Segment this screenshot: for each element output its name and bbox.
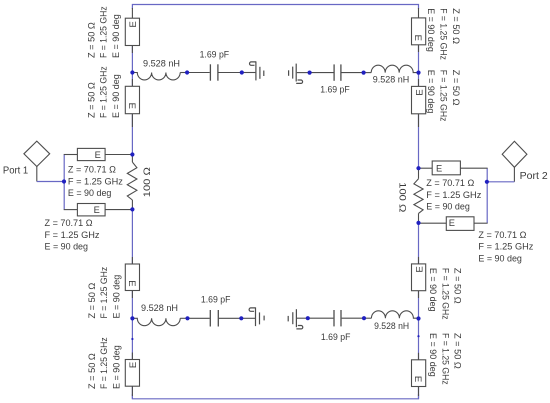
node left rail bottom branch xyxy=(130,316,134,320)
node port1 junction xyxy=(62,179,66,183)
svg-text:E: E xyxy=(126,280,137,286)
svg-text:E: E xyxy=(128,21,139,27)
TLIN U5 label E xyxy=(412,35,423,41)
ground top-right branch xyxy=(289,64,303,84)
TLIN box U4 left rail bottom xyxy=(125,360,139,387)
svg-text:E = 90 deg: E = 90 deg xyxy=(426,8,436,52)
svg-text:Z = 70.71 Ω: Z = 70.71 Ω xyxy=(68,164,116,174)
inductor L4 9.528 nH bottom-right xyxy=(371,311,418,318)
node bottom-left coil-cap xyxy=(185,316,189,320)
node left rail port lower xyxy=(130,207,134,211)
wire TLIN E3 to junction xyxy=(460,167,487,169)
wire TLIN E2 to left rail xyxy=(105,209,132,211)
resistor R1 100 ohm left xyxy=(127,162,137,200)
svg-text:1.69 pF: 1.69 pF xyxy=(200,50,230,60)
TLIN box E4 port2 lower 70.71 ohm xyxy=(446,217,474,231)
svg-text:E: E xyxy=(414,266,425,272)
svg-text:Z = 70.71 Ω: Z = 70.71 Ω xyxy=(426,178,474,188)
capacitor C3 1.69 pF bottom-left xyxy=(210,310,218,327)
svg-text:Port 1: Port 1 xyxy=(3,166,28,177)
svg-text:F = 1.25 GHz: F = 1.25 GHz xyxy=(438,70,448,122)
node left rail top branch xyxy=(130,70,134,74)
resistor R2 value 100 ohm xyxy=(398,182,408,212)
node small left rail xyxy=(131,338,133,340)
TLIN U2 values rotated xyxy=(86,66,121,118)
TLIN box U6 right rail second xyxy=(412,86,426,113)
wire port1 junction vertical xyxy=(63,155,65,210)
TLIN U7 values rotated xyxy=(428,268,463,320)
svg-text:E = 90 deg: E = 90 deg xyxy=(478,254,522,264)
TLIN U6 values rotated xyxy=(426,70,461,122)
node left rail port upper xyxy=(130,152,134,156)
svg-text:E = 90 deg: E = 90 deg xyxy=(111,14,121,58)
inductor L3 9.528 nH bottom-left xyxy=(132,318,180,325)
ground bottom-right branch xyxy=(288,309,303,329)
svg-text:Z = 50 Ω: Z = 50 Ω xyxy=(451,8,461,44)
wire port2 to junction xyxy=(487,181,515,183)
svg-text:Z = 50 Ω: Z = 50 Ω xyxy=(86,22,96,58)
wire right rail grey pins xyxy=(418,8,420,396)
TLIN U4 values rotated xyxy=(87,337,122,389)
svg-text:E = 90 deg: E = 90 deg xyxy=(68,188,112,198)
svg-text:E: E xyxy=(412,35,423,41)
svg-text:Z = 50 Ω: Z = 50 Ω xyxy=(451,70,461,106)
wire top-left branch leads xyxy=(180,72,255,74)
svg-text:9.528 nH: 9.528 nH xyxy=(141,303,178,313)
TLIN U3 values rotated xyxy=(87,266,122,318)
svg-text:E = 90 deg: E = 90 deg xyxy=(426,202,470,212)
svg-text:100 Ω: 100 Ω xyxy=(398,182,408,212)
inductor L1 9.528 nH top-left xyxy=(132,73,180,80)
node right rail top branch xyxy=(416,71,420,75)
svg-text:E = 90 deg: E = 90 deg xyxy=(426,70,436,114)
svg-text:F = 1.25 GHz: F = 1.25 GHz xyxy=(440,268,450,320)
TLIN U7 label E xyxy=(414,266,425,272)
TLIN box E2 port1 lower 70.71 ohm xyxy=(77,204,105,216)
svg-text:E: E xyxy=(414,89,425,95)
svg-text:E: E xyxy=(436,163,442,173)
svg-text:Z = 70.71 Ω: Z = 70.71 Ω xyxy=(478,230,526,240)
port 2 diamond xyxy=(502,141,527,167)
ground top-left branch xyxy=(250,61,264,80)
TLIN U4 label E xyxy=(128,362,139,368)
TLIN box U8 right rail bottom xyxy=(412,360,426,387)
node right rail port upper xyxy=(416,166,420,170)
capacitor C2 1.69 pF top-right xyxy=(334,64,341,80)
wire right rail segments xyxy=(418,45,420,399)
svg-text:E = 90 deg: E = 90 deg xyxy=(428,333,438,377)
port 1 diamond xyxy=(24,141,50,166)
resistor R1 value 100 ohm xyxy=(142,167,152,197)
node top-right cap-coil xyxy=(362,71,366,75)
svg-text:E = 90 deg: E = 90 deg xyxy=(428,268,438,312)
svg-text:Z = 50 Ω: Z = 50 Ω xyxy=(86,82,96,118)
svg-text:E = 90 deg: E = 90 deg xyxy=(45,242,89,252)
TLIN box U7 right rail third xyxy=(412,264,426,291)
port 2 pin wire xyxy=(513,167,515,182)
svg-text:E = 90 deg: E = 90 deg xyxy=(111,74,121,118)
wire bottom bus xyxy=(132,394,418,399)
TLIN box E1 port1 upper 70.71 ohm xyxy=(77,148,105,160)
wire port1 to junction xyxy=(37,181,64,183)
svg-text:E: E xyxy=(94,205,100,215)
TLIN box E3 port2 upper 70.71 ohm xyxy=(432,161,460,175)
node top-left coil-cap xyxy=(185,70,189,74)
node top-right ground-cap xyxy=(308,71,312,75)
svg-text:E: E xyxy=(449,218,455,228)
node right rail port lower xyxy=(416,221,420,225)
TLIN box U2 left rail second xyxy=(125,86,139,113)
wire bottom-left branch leads xyxy=(180,317,255,319)
svg-text:Z = 50 Ω: Z = 50 Ω xyxy=(87,283,97,319)
svg-text:Port 2: Port 2 xyxy=(520,171,548,182)
svg-text:E: E xyxy=(412,376,423,382)
svg-text:9.528 nH: 9.528 nH xyxy=(373,74,410,84)
node small right rail xyxy=(417,335,419,337)
inductor L2 9.528 nH top-right xyxy=(371,65,418,72)
wire stub to TLIN E1 xyxy=(64,154,78,156)
svg-text:F = 1.25 GHz: F = 1.25 GHz xyxy=(426,190,481,200)
svg-text:F = 1.25 GHz: F = 1.25 GHz xyxy=(99,337,109,389)
node bottom-right ground-cap xyxy=(306,316,310,320)
svg-text:F = 1.25 GHz: F = 1.25 GHz xyxy=(438,8,448,60)
svg-text:1.69 pF: 1.69 pF xyxy=(201,295,231,305)
svg-text:9.528 nH: 9.528 nH xyxy=(143,58,180,68)
wire left rail grey pins xyxy=(131,8,133,396)
ground bottom-left branch xyxy=(249,307,264,326)
svg-text:Z = 50 Ω: Z = 50 Ω xyxy=(87,353,97,389)
svg-text:1.69 pF: 1.69 pF xyxy=(321,332,351,342)
svg-text:9.528 nH: 9.528 nH xyxy=(374,321,409,331)
TLIN U8 label E xyxy=(412,376,423,382)
wire stub to TLIN E2 xyxy=(64,209,78,211)
svg-text:E = 90 deg: E = 90 deg xyxy=(112,345,122,389)
svg-text:F = 1.25 GHz: F = 1.25 GHz xyxy=(68,176,123,186)
port 1 pin wire xyxy=(36,167,38,182)
svg-text:Z = 70.71 Ω: Z = 70.71 Ω xyxy=(45,218,93,228)
svg-text:E: E xyxy=(126,103,137,109)
svg-text:E = 90 deg: E = 90 deg xyxy=(112,275,122,319)
TLIN U1 label E xyxy=(128,21,139,27)
wire top bus xyxy=(132,5,418,10)
wire top-right branch leads xyxy=(297,72,371,74)
TLIN U6 label E xyxy=(414,89,425,95)
svg-text:100 Ω: 100 Ω xyxy=(142,167,152,197)
wire TLIN E1 to left rail xyxy=(105,154,132,156)
wire TLIN E4 to junction xyxy=(474,222,488,224)
wire left rail segments xyxy=(131,46,133,399)
TLIN U5 values rotated xyxy=(426,8,461,60)
TLIN U1 values rotated xyxy=(86,6,121,58)
wire right rail to TLIN E4 xyxy=(419,222,447,224)
svg-text:Z = 50 Ω: Z = 50 Ω xyxy=(453,333,463,369)
node bottom-right cap-coil xyxy=(362,316,366,320)
wire bottom-right branch leads xyxy=(297,317,371,319)
TLIN box U3 left rail third xyxy=(125,264,139,291)
TLIN U3 label E xyxy=(126,280,137,286)
svg-text:F = 1.25 GHz: F = 1.25 GHz xyxy=(45,230,100,240)
svg-text:F = 1.25 GHz: F = 1.25 GHz xyxy=(99,266,109,318)
node top-left cap-ground xyxy=(240,70,244,74)
wire right rail to TLIN E3 xyxy=(419,167,433,169)
capacitor C1 1.69 pF top-left xyxy=(210,64,218,80)
resistor R2 100 ohm right xyxy=(414,179,423,214)
svg-text:E: E xyxy=(128,362,139,368)
capacitor C4 1.69 pF bottom-right xyxy=(334,310,341,326)
svg-text:F = 1.25 GHz: F = 1.25 GHz xyxy=(440,333,450,385)
svg-text:E: E xyxy=(95,150,101,160)
svg-text:Z = 50 Ω: Z = 50 Ω xyxy=(453,268,463,304)
TLIN U8 values rotated xyxy=(428,333,463,385)
TLIN box U5 right rail top xyxy=(412,18,426,45)
node right rail bottom branch xyxy=(416,316,420,320)
svg-text:F = 1.25 GHz: F = 1.25 GHz xyxy=(478,242,533,252)
wire port2 junction vertical xyxy=(486,168,488,223)
node port2 junction xyxy=(485,180,489,184)
TLIN U2 label E xyxy=(126,103,137,109)
TLIN box U1 left rail top xyxy=(125,18,139,45)
svg-text:1.69 pF: 1.69 pF xyxy=(320,85,350,95)
svg-text:F = 1.25 GHz: F = 1.25 GHz xyxy=(99,6,109,58)
node bottom-left cap-ground xyxy=(239,316,243,320)
svg-text:F = 1.25 GHz: F = 1.25 GHz xyxy=(99,66,109,118)
